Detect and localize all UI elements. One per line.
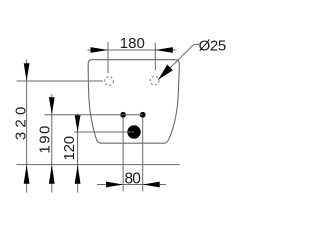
dimension 320: dimension line — [26, 60, 28, 193]
dimension 180: value label — [120, 35, 145, 52]
hole diameter label Ø25 — [199, 38, 227, 55]
left mounting hole (dashed circle) — [105, 77, 114, 86]
dimension 190: dimension line — [51, 94, 53, 193]
svg-text:180: 180 — [120, 35, 145, 52]
dimension 190: top arrow — [49, 97, 55, 115]
dimension 80: right arrow — [143, 182, 160, 188]
dimension 190: bottom arrow — [49, 165, 55, 184]
outlet reference line y=132 — [74, 131, 134, 133]
right mounting hole (dashed circle) — [150, 76, 159, 85]
right small port (filled dot) — [140, 112, 146, 118]
svg-text:120: 120 — [61, 136, 78, 161]
leader line for hole diameter — [158, 44, 199, 79]
leader arrow — [158, 65, 173, 80]
dimension 320: value label — [12, 107, 29, 140]
dimension 180: left extension line — [107, 42, 109, 73]
svg-text:320: 320 — [12, 107, 29, 140]
left small port (filled dot) — [120, 112, 126, 118]
svg-text:80: 80 — [125, 170, 142, 187]
hole-height reference line y=81 — [17, 80, 104, 82]
dimension 190: value label — [36, 126, 53, 154]
large outlet port (filled dot) — [127, 125, 140, 138]
dimension 180: right arrow — [155, 47, 173, 53]
fixture outline — [88, 60, 179, 144]
svg-text:190: 190 — [36, 126, 53, 154]
dimension 120: value label — [61, 136, 78, 161]
dimension 180: right extension line — [154, 43, 156, 71]
dimension 180: dimension line — [88, 49, 177, 51]
dimension 80: left arrow — [106, 182, 123, 188]
dimension 80: value label — [125, 170, 142, 187]
bottom datum line y=164.6 — [17, 164, 180, 166]
dimension 320: bottom arrow — [24, 165, 30, 184]
dimension 180: left arrow — [91, 47, 109, 53]
dimension 80: left extension line — [122, 118, 124, 192]
dimension 80: right extension line — [142, 118, 144, 192]
svg-text:Ø25: Ø25 — [199, 38, 227, 55]
dimension 320: top arrow — [24, 63, 30, 81]
dimension 120: dimension line — [77, 114, 79, 193]
dimension 80: dimension line — [97, 184, 166, 186]
dimension 120: bottom arrow — [75, 165, 81, 184]
small-ports reference line y=114.8 — [45, 114, 143, 116]
dimension 120: top arrow — [75, 115, 81, 132]
